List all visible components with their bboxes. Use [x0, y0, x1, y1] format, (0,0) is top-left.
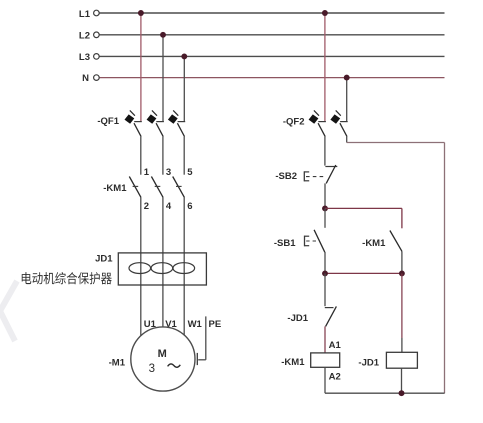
- svg-text:-SB1: -SB1: [274, 238, 296, 249]
- wire node A to KM1 aux (red): [325, 207, 402, 209]
- svg-text:-QF2: -QF2: [283, 116, 305, 127]
- wire KM1 pin2 through JD1 box to motor U1: [140, 197, 142, 336]
- wire QF1 pole2 to KM1 pin3: [162, 137, 164, 175]
- current transformer coil at x=161.9: [151, 263, 173, 274]
- svg-text:6: 6: [187, 201, 192, 212]
- wire N bus: [99, 77, 444, 79]
- current transformer coil at x=183.8: [173, 263, 195, 274]
- wire QF2 pole2 down: [346, 137, 348, 143]
- svg-text:L1: L1: [79, 9, 91, 20]
- wire right rail down: [444, 143, 446, 394]
- svg-text:4: 4: [166, 201, 172, 212]
- faint watermark arcs: [0, 281, 17, 341]
- wire KM1 pin4 through JD1 box to motor V1: [162, 197, 164, 327]
- circuit breaker QF1 pole 2: [147, 110, 164, 136]
- svg-text:W1: W1: [188, 319, 203, 330]
- wire KM1 coil A2 to bottom rail: [324, 367, 326, 393]
- svg-text:L2: L2: [79, 31, 90, 42]
- wire KM1 pin6 through JD1 box to motor W1: [183, 197, 185, 335]
- terminal L3: [94, 54, 100, 60]
- svg-text:-SB2: -SB2: [275, 171, 297, 182]
- wire bottom rail: [325, 392, 445, 394]
- wire node B to JD1 contact: [324, 273, 326, 306]
- node L2 junction: [160, 32, 166, 38]
- PE frame brush bar: [196, 353, 198, 365]
- wire L2 drop to QF1: [162, 35, 164, 122]
- terminal L1: [94, 10, 100, 16]
- wire QF1 pole1 to KM1 pin1: [140, 137, 142, 175]
- svg-text:A2: A2: [329, 372, 341, 383]
- contactor KM1 main contact pole 1: [129, 177, 141, 198]
- node L1 junction right: [322, 10, 328, 16]
- wire node A to SB1: [324, 208, 326, 227]
- node L1 junction: [138, 10, 144, 16]
- pushbutton SB2 (NC): [304, 165, 337, 183]
- circuit breaker QF2 pole 1: [309, 110, 326, 136]
- node bottom junction: [399, 390, 405, 396]
- svg-text:3: 3: [166, 167, 171, 178]
- wire L3 drop to QF1: [183, 56, 185, 121]
- wire QF1 pole3 to KM1 pin5: [183, 137, 185, 175]
- wire down to KM1 aux top (red): [401, 208, 403, 228]
- wire SB1 to node B: [324, 252, 326, 273]
- node N junction: [344, 75, 350, 81]
- wire L3 bus: [99, 55, 444, 57]
- wire QF2 pole1 to SB2: [324, 137, 326, 166]
- svg-text:M: M: [158, 348, 167, 360]
- svg-text:-KM1: -KM1: [281, 357, 305, 368]
- node L3 junction: [181, 53, 187, 59]
- svg-text:N: N: [82, 73, 89, 84]
- pushbutton SB1 (NO): [305, 230, 325, 252]
- relay coil JD1: [386, 352, 417, 368]
- svg-text:-M1: -M1: [109, 357, 126, 368]
- current transformer coil at x=139.8: [129, 263, 151, 274]
- wire JD1 coil bottom to rail: [401, 368, 403, 393]
- wire PE to frame: [198, 359, 206, 361]
- svg-text:3: 3: [149, 363, 155, 375]
- wire into JD1 coil top: [401, 338, 403, 352]
- circuit breaker QF1 pole 3: [168, 110, 185, 136]
- svg-text:A1: A1: [329, 340, 342, 351]
- circuit breaker QF2 pole 2: [330, 110, 347, 136]
- label 电动机综合保护器: [22, 272, 112, 284]
- wire node B to node C (red): [325, 272, 402, 274]
- contactor KM1 main contact pole 2: [151, 177, 163, 198]
- terminal L2: [94, 32, 100, 38]
- motor M1 circle: [131, 327, 195, 391]
- svg-text:L3: L3: [79, 52, 90, 63]
- svg-text:-JD1: -JD1: [287, 313, 308, 324]
- node A junction: [322, 205, 328, 211]
- svg-text:5: 5: [187, 167, 193, 178]
- svg-text:1: 1: [144, 167, 150, 178]
- contactor KM1 aux contact (NO): [390, 231, 402, 252]
- terminal N: [94, 75, 100, 81]
- wire SB2 to node A: [324, 183, 326, 208]
- contactor coil KM1: [311, 353, 340, 367]
- wire L1 drop to QF2: [324, 13, 326, 121]
- node B junction: [322, 270, 328, 276]
- svg-text:PE: PE: [209, 319, 222, 330]
- wire node C to JD1 coil (red): [401, 273, 403, 338]
- wire JD1 contact to KM1 coil A1 (red): [324, 326, 326, 353]
- wire L1 drop to QF1: [140, 13, 142, 121]
- motor protector JD1 box: [118, 253, 206, 285]
- svg-text:-KM1: -KM1: [362, 238, 386, 249]
- svg-text:JD1: JD1: [95, 254, 113, 265]
- wire PE drop: [205, 316, 207, 359]
- wire L2 bus: [99, 34, 444, 36]
- svg-text:-KM1: -KM1: [103, 183, 127, 194]
- contactor KM1 main contact pole 3: [173, 177, 185, 198]
- wire N drop to QF2: [346, 78, 348, 122]
- node C junction: [399, 270, 405, 276]
- wire KM1 aux to node C: [401, 251, 403, 273]
- svg-text:2: 2: [144, 201, 149, 212]
- AC tilde symbol: [168, 364, 181, 367]
- svg-text:-QF1: -QF1: [97, 116, 119, 127]
- wire L1 bus: [99, 12, 444, 14]
- circuit breaker QF1 pole 1: [125, 110, 142, 136]
- relay JD1 contact (NC): [325, 306, 337, 326]
- svg-text:-JD1: -JD1: [358, 357, 379, 368]
- wire neutral branch right: [347, 142, 445, 144]
